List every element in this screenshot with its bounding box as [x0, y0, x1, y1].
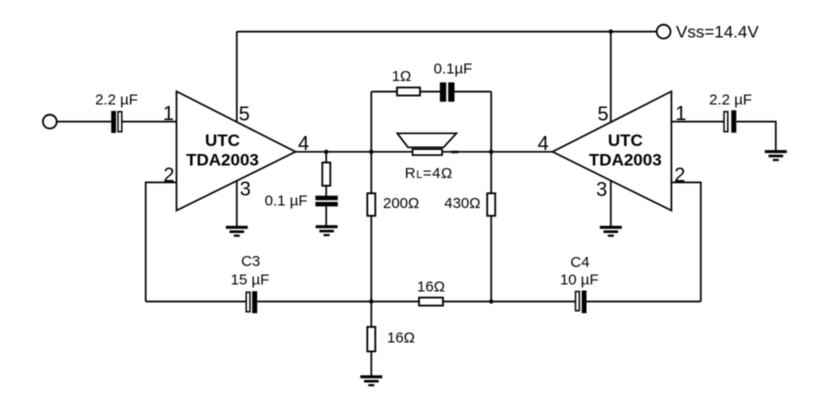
- wire C3 to C4: [257, 301, 575, 303]
- svg-text:2.2 µF: 2.2 µF: [709, 92, 752, 109]
- junction node C: [489, 150, 493, 154]
- wire resistor to cap: [420, 91, 440, 93]
- pin 1 wire (right): [671, 121, 723, 123]
- capacitor C1 plates: [111, 111, 122, 133]
- resistor (series with 0.1uF): [322, 163, 330, 186]
- svg-text:2: 2: [674, 165, 685, 187]
- svg-text:C4: C4: [570, 254, 589, 271]
- wire C2 to ground: [737, 122, 776, 151]
- junction node B: [369, 150, 373, 154]
- wire node D to ground: [370, 302, 372, 376]
- junction node E: [489, 299, 493, 303]
- junction node A: [324, 150, 328, 154]
- svg-text:5: 5: [597, 104, 608, 126]
- svg-text:430Ω: 430Ω: [444, 195, 480, 212]
- svg-text:3: 3: [240, 179, 251, 201]
- svg-text:0.1 µF: 0.1 µF: [265, 192, 308, 209]
- ground bottom: [360, 375, 382, 386]
- speaker terminal dash: [451, 151, 458, 154]
- speaker RL horn: [397, 133, 456, 147]
- resistor 430 ohm: [487, 193, 495, 216]
- svg-text:200Ω: 200Ω: [383, 195, 419, 212]
- svg-text:RL=4Ω: RL=4Ω: [405, 165, 453, 182]
- input terminal J1: [43, 115, 57, 129]
- svg-text:16Ω: 16Ω: [417, 278, 445, 295]
- speaker RL body: [413, 149, 443, 155]
- svg-text:1Ω: 1Ω: [392, 68, 412, 85]
- Vss terminal: [657, 25, 671, 39]
- svg-text:5: 5: [239, 104, 250, 126]
- ground shunt cap: [316, 225, 338, 236]
- wire C1 to pin 1: [122, 121, 176, 123]
- wire snubber right leg: [490, 92, 492, 152]
- svg-text:1: 1: [163, 103, 174, 125]
- capacitor C3 plates: [246, 291, 257, 313]
- resistor 1 ohm: [397, 88, 420, 96]
- wire snubber top left: [371, 91, 397, 93]
- resistor 16 ohm horizontal: [419, 298, 443, 306]
- svg-text:16Ω: 16Ω: [387, 330, 415, 347]
- capacitor 0.1uF shunt plates: [315, 196, 337, 207]
- wire cap to ground: [325, 206, 327, 226]
- op-amp U2: [553, 91, 672, 210]
- svg-text:2: 2: [163, 165, 174, 187]
- svg-text:C3: C3: [241, 253, 260, 270]
- junction node D: [369, 299, 373, 303]
- pin 5 wire (right): [610, 32, 612, 122]
- pin 3 wire (right): [610, 180, 612, 227]
- wire node B down: [370, 152, 372, 302]
- svg-text:Vss=14.4V: Vss=14.4V: [676, 23, 759, 42]
- wire node A down: [325, 152, 327, 196]
- svg-text:UTC: UTC: [608, 131, 643, 150]
- svg-text:15 µF: 15 µF: [231, 271, 270, 288]
- op-amp U1: [177, 91, 296, 210]
- capacitor 0.1uF snubber plates: [440, 82, 455, 101]
- svg-text:2.2 µF: 2.2 µF: [95, 92, 138, 109]
- wire C4 to pin 2 right: [587, 301, 701, 303]
- svg-text:4: 4: [538, 133, 549, 155]
- svg-text:1: 1: [675, 103, 686, 125]
- svg-text:UTC: UTC: [205, 131, 240, 150]
- ground U2 pin 3: [600, 226, 622, 237]
- wire bottom left to C3: [146, 301, 246, 303]
- wire cap to snubber right leg: [455, 91, 492, 93]
- wire output bus: [296, 151, 553, 153]
- capacitor C4 plates: [576, 291, 587, 314]
- wire Vss rail: [237, 31, 657, 33]
- wire snubber left leg: [370, 92, 372, 152]
- svg-text:TDA2003: TDA2003: [589, 151, 662, 170]
- pin 3 wire (left): [236, 180, 238, 227]
- svg-text:TDA2003: TDA2003: [186, 151, 259, 170]
- pin 2 wire (left): [146, 182, 177, 301]
- wire input to C1: [57, 121, 111, 123]
- capacitor C2 plates: [724, 110, 736, 132]
- svg-text:3: 3: [596, 179, 607, 201]
- svg-text:0.1µF: 0.1µF: [434, 61, 473, 78]
- junction rail: [609, 29, 613, 33]
- resistor 16 ohm vertical: [367, 327, 375, 352]
- ground U1 pin 3: [226, 226, 248, 237]
- pin 5 wire (left): [236, 32, 238, 122]
- wire node C down: [490, 152, 492, 302]
- svg-text:10 µF: 10 µF: [560, 271, 599, 288]
- ground after C2: [765, 150, 787, 161]
- resistor 200 ohm: [367, 193, 375, 216]
- pin 2 wire (right): [671, 182, 700, 301]
